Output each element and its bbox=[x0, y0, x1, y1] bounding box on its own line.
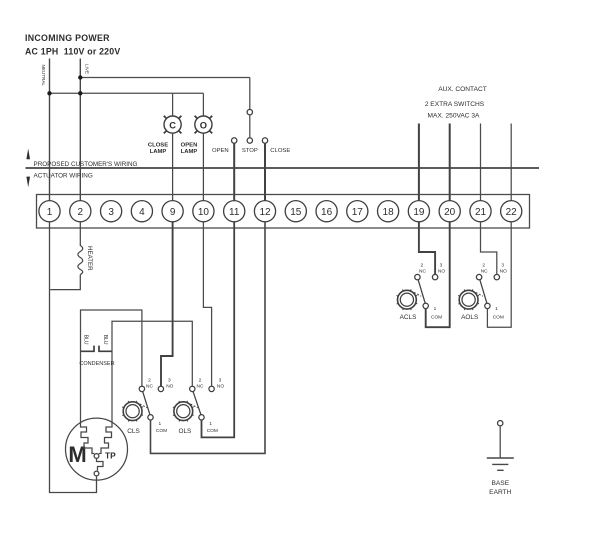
wire terminal 9 to CLS NO bbox=[161, 222, 173, 387]
svg-text:OPEN: OPEN bbox=[212, 148, 229, 154]
wire terminal 10 to OLS NO bbox=[203, 222, 211, 387]
svg-text:MAX. 250VAC 3A: MAX. 250VAC 3A bbox=[428, 112, 481, 119]
node TP output bbox=[94, 471, 99, 476]
svg-text:1: 1 bbox=[47, 207, 53, 218]
svg-text:19: 19 bbox=[413, 207, 425, 218]
terminal 17 bbox=[347, 201, 368, 222]
junction dot on neutral bbox=[47, 91, 51, 95]
svg-text:OPEN: OPEN bbox=[181, 143, 198, 149]
title INCOMING POWER bbox=[25, 33, 120, 57]
terminal 3 bbox=[101, 201, 122, 222]
svg-text:3: 3 bbox=[168, 378, 171, 384]
svg-text:NC: NC bbox=[481, 269, 488, 275]
svg-text:AC 1PH 110V or 220V: AC 1PH 110V or 220V bbox=[25, 47, 120, 57]
svg-text:AOLS: AOLS bbox=[461, 314, 478, 321]
svg-text:PROPOSED CUSTOMER'S WIRING: PROPOSED CUSTOMER'S WIRING bbox=[34, 161, 138, 168]
boundary line customer/actuator wiring bbox=[26, 167, 540, 169]
label CLOSE LAMP bbox=[148, 143, 168, 156]
svg-text:CLS: CLS bbox=[127, 428, 139, 435]
wire terminal 1 to motor return bbox=[50, 222, 97, 493]
wire motor close winding to CLS NC bbox=[81, 310, 142, 424]
svg-text:21: 21 bbox=[475, 207, 487, 218]
svg-text:BASE: BASE bbox=[492, 480, 510, 487]
ground base earth bbox=[487, 458, 514, 496]
svg-text:AUX. CONTACT: AUX. CONTACT bbox=[438, 86, 487, 93]
terminal 19 bbox=[408, 201, 429, 222]
label aux contact block bbox=[425, 86, 487, 119]
wire terminal 20 to ACLS COM bbox=[426, 222, 450, 328]
wire terminal 21 to AOLS NO bbox=[481, 222, 497, 275]
svg-text:NC: NC bbox=[146, 383, 153, 389]
svg-text:C: C bbox=[169, 120, 176, 130]
thermal protector TP bbox=[97, 458, 104, 470]
svg-text:NO: NO bbox=[217, 383, 224, 389]
svg-text:TP: TP bbox=[105, 451, 116, 461]
terminal 4 bbox=[131, 201, 152, 222]
terminal 2 bbox=[70, 201, 91, 222]
wire aux terminal 19 lead bbox=[418, 124, 420, 202]
svg-text:15: 15 bbox=[290, 207, 302, 218]
pushbutton CLOSE contact bbox=[262, 138, 290, 154]
svg-text:O: O bbox=[200, 120, 207, 130]
terminal 20 bbox=[439, 201, 460, 222]
terminal 12 bbox=[254, 201, 275, 222]
wire terminal 12 to CLS COM bbox=[151, 222, 266, 454]
wire aux terminal 20 lead bbox=[449, 124, 451, 202]
svg-text:HEATER: HEATER bbox=[86, 246, 93, 271]
svg-text:CLOSE: CLOSE bbox=[270, 148, 290, 154]
heater element bbox=[78, 246, 83, 275]
pushbutton STOP (NC) bbox=[242, 78, 258, 154]
motor winding right (open) bbox=[99, 423, 112, 454]
svg-text:4: 4 bbox=[139, 207, 145, 218]
terminal 16 bbox=[316, 201, 337, 222]
svg-text:NO: NO bbox=[166, 383, 173, 389]
wire neutral (vertical from supply to terminal 1) bbox=[49, 59, 51, 202]
svg-text:COM: COM bbox=[493, 315, 504, 321]
svg-text:3: 3 bbox=[219, 378, 222, 384]
svg-text:ACLS: ACLS bbox=[400, 314, 417, 321]
wire live (vertical from supply to terminal 2) bbox=[79, 59, 81, 202]
capacitor condenser left plate bbox=[81, 346, 95, 352]
boundary arrow up bbox=[26, 149, 30, 160]
svg-text:ACTUATOR WIRING: ACTUATOR WIRING bbox=[34, 173, 93, 180]
svg-text:16: 16 bbox=[321, 207, 333, 218]
wire heater to neutral leg bbox=[50, 275, 80, 290]
aux switch ACLS bbox=[397, 263, 446, 322]
svg-text:BLU: BLU bbox=[83, 335, 89, 345]
terminal 10 bbox=[193, 201, 214, 222]
capacitor condenser right plate bbox=[99, 346, 112, 352]
svg-text:1: 1 bbox=[209, 421, 212, 427]
wire live branch to stop button bbox=[80, 77, 250, 79]
svg-text:17: 17 bbox=[352, 207, 364, 218]
terminal 9 bbox=[162, 201, 183, 222]
terminal strip box bbox=[37, 195, 530, 229]
svg-text:LIVE: LIVE bbox=[84, 64, 89, 74]
svg-text:1: 1 bbox=[158, 421, 161, 427]
svg-text:2: 2 bbox=[482, 263, 485, 269]
wire close lamp to terminal 9 bbox=[172, 133, 174, 201]
wire terminal 11 to OLS COM bbox=[202, 222, 235, 438]
wire terminal 2 to heater bbox=[79, 222, 81, 247]
svg-text:1: 1 bbox=[434, 306, 437, 312]
wire to close lamp bbox=[172, 93, 174, 116]
wire lamp feed from neutral bbox=[50, 92, 204, 94]
wire to earth bbox=[499, 426, 501, 458]
svg-text:INCOMING POWER: INCOMING POWER bbox=[25, 33, 110, 43]
svg-text:COM: COM bbox=[431, 315, 442, 321]
svg-text:11: 11 bbox=[229, 207, 240, 218]
svg-text:9: 9 bbox=[170, 207, 176, 218]
svg-text:NO: NO bbox=[500, 269, 507, 275]
svg-text:2 EXTRA SWITCHS: 2 EXTRA SWITCHS bbox=[425, 101, 485, 108]
svg-text:EARTH: EARTH bbox=[489, 489, 511, 496]
svg-text:STOP: STOP bbox=[242, 148, 258, 154]
svg-text:NEUTRAL: NEUTRAL bbox=[41, 65, 46, 87]
svg-text:22: 22 bbox=[506, 207, 518, 218]
terminal 11 bbox=[224, 201, 245, 222]
svg-text:1: 1 bbox=[495, 306, 498, 312]
svg-text:CLOSE: CLOSE bbox=[148, 143, 168, 149]
svg-text:3: 3 bbox=[108, 207, 114, 218]
svg-text:CONDENSER: CONDENSER bbox=[79, 361, 114, 367]
terminal 1 bbox=[39, 201, 60, 222]
wire close button to terminal 12 bbox=[264, 143, 266, 201]
terminal 21 bbox=[470, 201, 491, 222]
svg-text:2: 2 bbox=[78, 207, 84, 218]
svg-text:2: 2 bbox=[148, 378, 151, 384]
wire aux terminal 22 lead bbox=[510, 124, 512, 202]
svg-text:LAMP: LAMP bbox=[150, 149, 167, 155]
svg-text:2: 2 bbox=[421, 263, 424, 269]
svg-text:NO: NO bbox=[438, 269, 445, 275]
svg-text:12: 12 bbox=[259, 207, 271, 218]
svg-text:COM: COM bbox=[156, 428, 167, 434]
svg-text:COM: COM bbox=[207, 428, 218, 434]
boundary arrow down bbox=[26, 177, 30, 188]
svg-text:LAMP: LAMP bbox=[181, 149, 198, 155]
svg-text:10: 10 bbox=[198, 207, 210, 218]
earth terminal circle bbox=[498, 421, 503, 426]
wire aux terminal 21 lead bbox=[480, 124, 482, 202]
lamp O (open lamp) bbox=[195, 116, 213, 134]
svg-text:2: 2 bbox=[199, 378, 202, 384]
motor winding left (close) bbox=[81, 424, 95, 454]
terminal 18 bbox=[378, 201, 399, 222]
label OPEN LAMP bbox=[181, 143, 198, 156]
node winding junction bbox=[94, 454, 99, 459]
limit switch OLS bbox=[173, 378, 224, 435]
svg-text:NC: NC bbox=[197, 383, 204, 389]
lamp C (close lamp) bbox=[164, 116, 182, 134]
svg-text:20: 20 bbox=[444, 207, 456, 218]
svg-text:NC: NC bbox=[419, 269, 426, 275]
svg-text:OLS: OLS bbox=[179, 428, 192, 435]
wire motor open winding to OLS NC bbox=[112, 321, 192, 422]
terminal 22 bbox=[501, 201, 522, 222]
svg-text:BLU: BLU bbox=[102, 335, 108, 345]
svg-text:18: 18 bbox=[383, 207, 395, 218]
junction dot on live crossing bbox=[78, 91, 82, 95]
wire to open lamp bbox=[202, 93, 204, 116]
pushbutton OPEN contact bbox=[212, 138, 237, 154]
wire open lamp to terminal 10 bbox=[202, 133, 204, 201]
svg-text:3: 3 bbox=[501, 263, 504, 269]
wire terminal 22 to AOLS COM bbox=[487, 222, 511, 328]
junction dot on live bbox=[78, 75, 82, 79]
wire open button to terminal 11 bbox=[233, 143, 235, 201]
svg-text:3: 3 bbox=[440, 263, 443, 269]
terminal 15 bbox=[285, 201, 306, 222]
aux switch AOLS bbox=[458, 263, 507, 322]
limit switch CLS bbox=[122, 378, 173, 435]
wire terminal 19 to ACLS NO bbox=[419, 222, 435, 275]
motor M bbox=[66, 418, 128, 480]
